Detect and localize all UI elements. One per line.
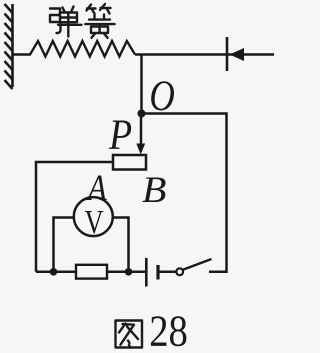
弹 右 单: box with mid line (60, 13, 77, 23)
resistor R (76, 265, 107, 279)
wiper P arrow (136, 114, 145, 155)
force arrow head (230, 48, 245, 61)
node O junction dot (138, 110, 146, 118)
簧 bamboo radical right (100, 4, 111, 14)
弹 left radical 弓 (50, 9, 61, 34)
switch lever (183, 259, 212, 270)
簧 黄 bottom legs (92, 34, 108, 38)
tick mark on rod (226, 37, 229, 71)
svg-text:O: O (149, 72, 174, 120)
switch pivot circle (176, 268, 183, 275)
junction dot left (50, 268, 58, 276)
label 图 (figure) (116, 321, 143, 348)
wire from rheostat terminal A to left side (36, 162, 113, 272)
弹 right 单: two dots (63, 7, 74, 12)
wire battery to switch (158, 271, 176, 274)
voltmeter branch wire right (113, 218, 129, 272)
弹 right 单: vertical (67, 13, 69, 37)
battery cell long plate (145, 258, 148, 287)
rod wire (135, 53, 274, 56)
簧 黄 top 廿 (89, 15, 110, 20)
bottom wire (36, 271, 146, 274)
voltmeter V (74, 197, 113, 236)
wire from rod down to O (140, 55, 143, 114)
spring (13, 41, 136, 57)
svg-text:28: 28 (149, 306, 188, 353)
wall (5, 4, 13, 89)
wire from O to right side and down to switch contact (142, 114, 227, 272)
簧 bamboo radical left (87, 5, 96, 14)
svg-text:B: B (142, 170, 166, 210)
簧 黄 wide horizontal (85, 23, 114, 25)
弹 right 单: long horizontal (58, 24, 82, 26)
battery cell short plate (156, 265, 159, 280)
rheostat A-B (113, 155, 146, 170)
voltmeter branch wire left (54, 218, 75, 272)
簧 黄 box 由 (91, 25, 108, 34)
svg-text:V: V (85, 203, 104, 241)
label 弹簧 (50, 4, 115, 38)
svg-text:P: P (108, 111, 132, 159)
junction dot right (125, 268, 133, 276)
